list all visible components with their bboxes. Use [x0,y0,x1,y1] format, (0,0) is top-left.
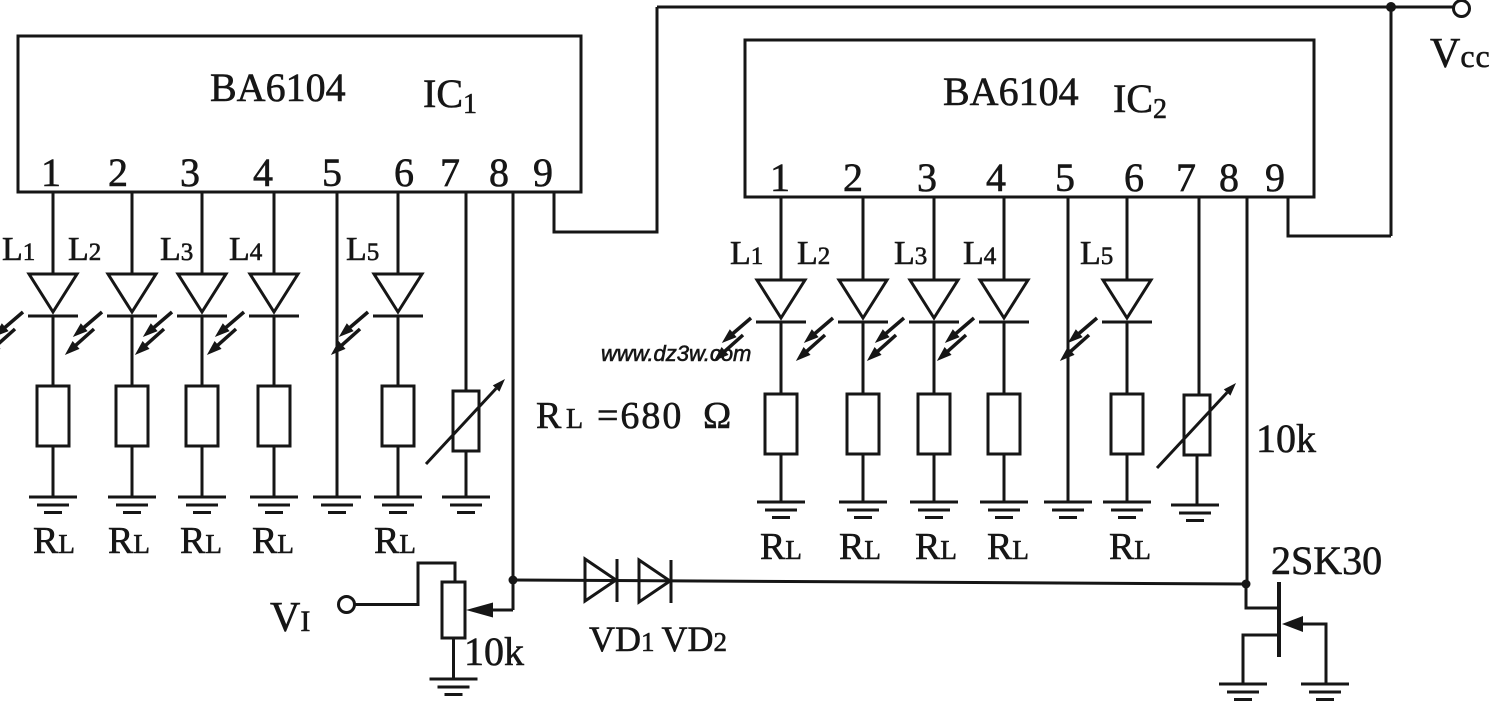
ground (IC1 ch1) [29,497,77,513]
svg-text:L3: L3 [160,231,193,268]
wire IC2 pin3 to LED L3 [933,197,936,280]
svg-text:RL=680Ω: RL=680Ω [536,395,731,437]
wire IC2 pin1 to LED L1 [780,197,783,280]
svg-text:L3: L3 [894,235,927,272]
svg-text:RL: RL [987,526,1029,568]
ground (IC2 ch5) [1103,502,1151,518]
wiper arrow of potentiometer [466,603,493,618]
wire L4 to RL [1003,321,1006,394]
svg-text:L1: L1 [2,231,35,268]
LED L4 (IC2) [938,280,1029,360]
resistor RL (IC1 ch5) [382,386,414,446]
svg-text:2: 2 [108,150,128,195]
wire IC2 pin2 to LED L2 [862,197,865,280]
svg-text:RL: RL [760,526,802,568]
svg-text:IC2: IC2 [1113,76,1167,125]
wire wiper from pin8 line [491,609,513,612]
svg-text:RL: RL [252,520,294,562]
LED L3 (IC2) [868,280,959,360]
wire L2 to RL [862,321,865,394]
svg-text:L4: L4 [229,231,263,268]
wire L1 to RL [780,321,783,394]
wire: bottom bus [513,580,1246,584]
wire trimmer to ground [465,451,468,497]
transistor 2SK30 gate wire [1246,584,1279,608]
svg-text:RL: RL [180,520,222,562]
wire RL to ground [1003,454,1006,502]
op-amp IC1 box (BA6104) [18,36,581,192]
svg-text:3: 3 [917,155,937,200]
svg-text:1: 1 [770,155,790,200]
wire L4 to RL [273,315,276,386]
wire IC1 pin3 to LED L3 [201,192,204,274]
svg-text:BA6104: BA6104 [210,65,346,110]
ground (FET right) [1301,684,1349,700]
svg-text:www.dz3w.com: www.dz3w.com [601,341,751,366]
wire IC2 pin8 down to FET gate [1246,197,1249,584]
svg-text:8: 8 [1219,155,1239,200]
svg-text:1: 1 [41,150,61,195]
terminal Vcc circle [1454,1,1470,17]
wire L5 to RL [1126,321,1129,394]
LED L1 (IC1) [0,274,78,354]
wire RL to ground [273,446,276,497]
svg-text:VI: VI [270,595,310,641]
node: bus junction dot left [509,576,518,585]
resistor RL (IC1 ch4) [258,386,290,446]
svg-text:5: 5 [1055,155,1075,200]
resistor RL (IC2 ch3) [918,394,950,454]
wire RL to ground [780,454,783,502]
wire IC1 pin4 to LED L4 [273,192,276,274]
ground (FET left) [1219,684,1267,700]
svg-text:L4: L4 [963,235,997,272]
terminal V1 circle [339,597,355,613]
transistor 2SK30 arrow [1282,616,1303,632]
svg-text:4: 4 [986,155,1006,200]
resistor RL (IC1 ch1) [37,386,69,446]
node: Vcc junction dot [1386,2,1396,12]
wire IC1 pin2 to LED L2 [131,192,134,274]
resistor RL (IC2 ch5) [1111,394,1143,454]
svg-text:VD1VD2: VD1VD2 [589,619,727,659]
resistor RL (IC1 ch2) [116,386,148,446]
wire L1 to RL [52,315,55,386]
svg-text:9: 9 [1265,155,1285,200]
wire trimmer to ground [1196,455,1199,505]
wire RL to ground [862,454,865,502]
LED L4 (IC1) [208,274,299,354]
ground (IC1 ch2) [108,497,156,513]
svg-text:BA6104: BA6104 [943,69,1079,114]
svg-text:7: 7 [440,150,460,195]
svg-text:7: 7 [1176,155,1196,200]
svg-text:4: 4 [253,150,273,195]
resistor RL (IC2 ch1) [765,394,797,454]
wire FET arrow to right leg [1303,624,1326,684]
svg-text:Vcc: Vcc [1430,31,1491,77]
op-amp IC2 box (BA6104) [745,40,1314,197]
wire IC1 pin7 to trimmer [465,192,468,391]
svg-text:RL: RL [33,520,75,562]
trimmer resistor (IC1 pin7) [426,379,505,464]
LED L2 (IC2) [797,280,888,360]
svg-text:5: 5 [322,150,342,195]
ground (IC1 ch3) [178,497,226,513]
svg-text:L2: L2 [68,231,101,268]
ground (IC2 ch1) [757,502,805,518]
svg-text:3: 3 [180,150,200,195]
diode VD1 [585,559,617,602]
svg-text:RL: RL [839,526,881,568]
wire L2 to RL [131,315,134,386]
wire L3 to RL [201,315,204,386]
resistor RL (IC2 ch2) [847,394,879,454]
wire RL to ground [933,454,936,502]
wire IC1 pin8 down to bus [512,192,515,610]
ground (IC1 ch5) [374,497,422,513]
resistor RL (IC1 ch3) [186,386,218,446]
wire RL to ground [52,446,55,497]
potentiometer 10k body [442,582,465,638]
LED L5 (IC2) [1061,280,1152,360]
wire RL to ground [397,446,400,497]
ground (IC1 trimmer) [442,497,490,513]
wire IC2 pin6 to LED L5 [1126,197,1129,280]
diode VD2 [639,560,671,603]
wire L5 to RL [397,315,400,386]
wire L3 to RL [933,321,936,394]
LED L5 (IC1) [332,274,423,354]
node: FET gate junction dot [1242,580,1251,589]
ground (IC1 pin5) [313,497,361,513]
svg-text:9: 9 [533,150,553,195]
wire IC2 pin4 to LED L4 [1003,197,1006,280]
wire RL to ground [131,446,134,497]
ground (potentiometer) [430,679,478,695]
wire IC1 pin6 to LED L5 [397,192,400,274]
svg-text:RL: RL [374,520,416,562]
wire IC2 pin5 to ground [1067,197,1070,502]
LED L3 (IC1) [136,274,227,354]
ground (IC2 ch2) [839,502,887,518]
svg-text:6: 6 [394,150,414,195]
svg-text:RL: RL [108,520,150,562]
svg-text:L5: L5 [1080,235,1113,272]
LED L1 (IC2) [715,280,806,360]
svg-text:RL: RL [1109,526,1151,568]
trimmer resistor (IC2 pin7) [1157,383,1236,468]
svg-text:10k: 10k [1256,416,1316,461]
svg-text:6: 6 [1124,155,1144,200]
wire RL to ground [201,446,204,497]
svg-text:L1: L1 [730,235,763,272]
wire potentiometer to ground [452,638,455,679]
resistor RL (IC2 ch4) [988,394,1020,454]
LED L2 (IC1) [66,274,157,354]
svg-text:IC1: IC1 [423,71,477,120]
svg-text:2SK30: 2SK30 [1271,538,1382,583]
ground (IC2 ch3) [910,502,958,518]
ground (IC2 pin5) [1044,502,1092,518]
ground (IC2 ch4) [980,502,1028,518]
wire IC2 pin7 to trimmer [1198,197,1201,395]
transistor 2SK30 channel bar [1277,582,1281,657]
ground (IC1 ch4) [250,497,298,513]
svg-text:2: 2 [843,155,863,200]
svg-text:L2: L2 [797,235,830,272]
svg-text:10k: 10k [464,629,524,674]
wire IC1 pin1 to LED L1 [52,192,55,274]
ground (IC2 trimmer) [1171,505,1219,521]
wire V1 to potentiometer top [355,563,455,605]
svg-text:L5: L5 [346,231,379,268]
wire IC1 pin9 to top rail [554,7,657,232]
wire: top Vcc rail [657,6,1453,9]
svg-text:8: 8 [489,150,509,195]
wire FET left leg [1243,635,1279,684]
wire IC1 pin5 to ground [336,192,339,497]
wire: Vcc vertical drop [1390,7,1393,236]
wire RL to ground [1126,454,1129,502]
wire IC2 pin9 to Vcc [1288,197,1391,236]
svg-text:RL: RL [915,526,957,568]
